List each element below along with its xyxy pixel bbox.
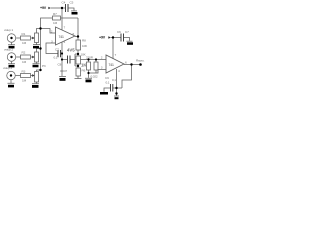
svg-text:vstup 3: vstup 3 (3, 66, 12, 70)
svg-text:C7: C7 (55, 47, 59, 51)
svg-text:R2: R2 (22, 51, 26, 55)
svg-text:3: 3 (101, 65, 103, 69)
svg-text:2: 2 (101, 55, 103, 59)
svg-text:P3: P3 (42, 64, 46, 68)
svg-text:0,1: 0,1 (54, 55, 58, 59)
svg-text:220R: 220R (86, 55, 94, 59)
svg-text:7: 7 (115, 53, 117, 57)
svg-text:0,1: 0,1 (112, 78, 116, 82)
svg-text:741: 741 (59, 35, 64, 39)
svg-text:C7: C7 (125, 30, 129, 34)
svg-text:0,047: 0,047 (60, 69, 67, 73)
svg-text:7: 7 (64, 25, 66, 29)
svg-text:+9V: +9V (99, 35, 106, 39)
svg-text:1K: 1K (81, 63, 87, 68)
svg-text:Repro.: Repro. (136, 58, 145, 62)
svg-text:R7: R7 (53, 12, 57, 16)
svg-text:C8: C8 (58, 62, 62, 66)
svg-text:vstup 2: vstup 2 (4, 48, 13, 52)
svg-text:1M: 1M (22, 41, 27, 45)
svg-text:0.022: 0.022 (91, 75, 98, 79)
svg-text:4: 4 (118, 69, 120, 73)
svg-text:C9: C9 (105, 76, 109, 80)
svg-text:R6: R6 (82, 69, 86, 73)
svg-text:6: 6 (125, 61, 127, 65)
svg-text:C5: C5 (70, 1, 74, 5)
svg-text:C6: C6 (117, 30, 121, 34)
svg-text:0,1: 0,1 (106, 81, 110, 85)
svg-text:1M: 1M (22, 60, 27, 64)
svg-text:vstup 1: vstup 1 (4, 28, 13, 32)
svg-text:10K: 10K (82, 44, 88, 48)
svg-text:R8: R8 (82, 39, 86, 43)
svg-text:R1: R1 (22, 32, 26, 36)
svg-text:R3: R3 (22, 70, 26, 74)
svg-text:C4: C4 (62, 1, 66, 5)
svg-text:1M: 1M (53, 21, 58, 25)
svg-text:741: 741 (109, 63, 114, 67)
svg-text:4V5: 4V5 (67, 48, 75, 53)
svg-text:1M: 1M (22, 79, 27, 83)
svg-text:+9V: +9V (40, 6, 47, 10)
